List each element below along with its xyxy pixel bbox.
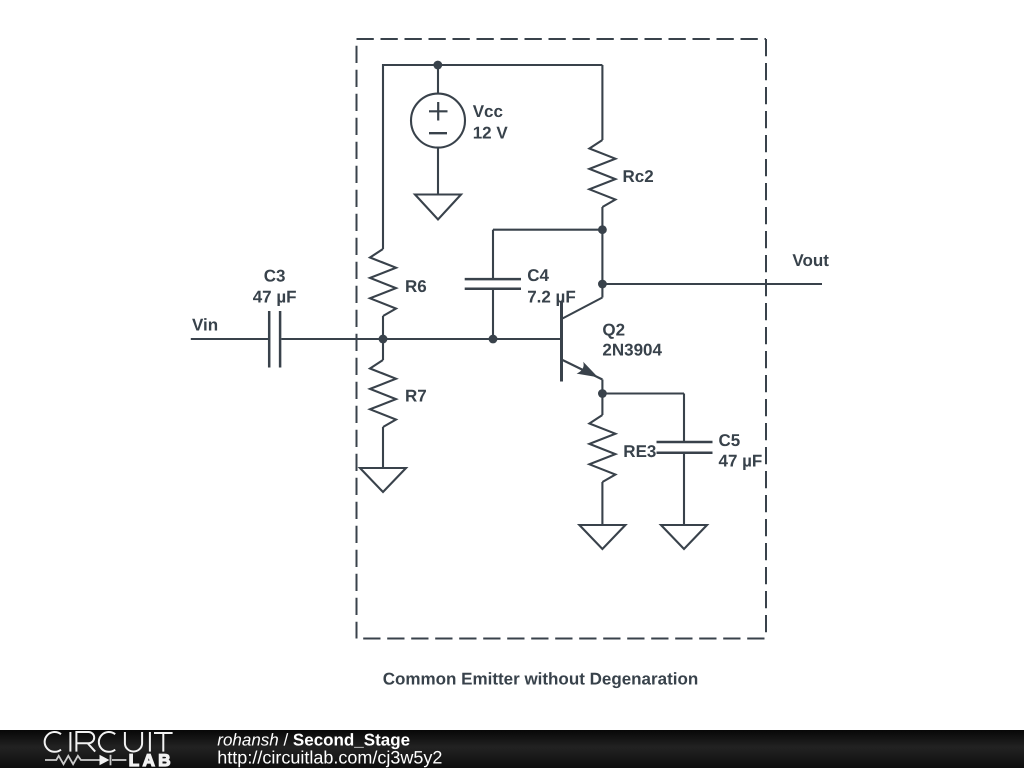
svg-text:Q2: Q2 [602,321,625,340]
svg-text:Vout: Vout [792,251,829,270]
svg-text:http://circuitlab.com/cj3w5y2: http://circuitlab.com/cj3w5y2 [217,748,442,768]
svg-text:C4: C4 [527,266,549,285]
svg-text:Vin: Vin [192,316,218,335]
svg-text:Common Emitter without Degenar: Common Emitter without Degenaration [383,670,698,689]
svg-text:RE3: RE3 [623,442,656,461]
svg-text:47 µF: 47 µF [719,452,763,471]
svg-text:2N3904: 2N3904 [602,341,662,360]
svg-text:R7: R7 [405,387,427,406]
svg-text:47 µF: 47 µF [253,288,297,307]
svg-text:Vcc: Vcc [473,102,503,121]
svg-text:C5: C5 [719,431,741,450]
svg-text:Rc2: Rc2 [623,167,654,186]
svg-text:C3: C3 [264,267,286,286]
svg-text:LAB: LAB [129,751,174,768]
svg-text:12 V: 12 V [473,124,509,143]
svg-text:R6: R6 [405,277,427,296]
svg-text:7.2 µF: 7.2 µF [527,288,576,307]
